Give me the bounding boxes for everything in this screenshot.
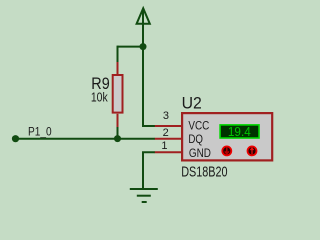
resistor R9 body — [113, 75, 123, 113]
wire top horizontal — [118, 46, 144, 48]
ground — [130, 189, 158, 202]
svg-text:10k: 10k — [91, 90, 108, 105]
DS18B20 U2 body — [182, 113, 272, 160]
svg-text:VCC: VCC — [188, 119, 209, 133]
pin 1 stub — [155, 151, 182, 153]
wire GND elbow down to ground — [143, 152, 155, 188]
svg-text:2: 2 — [163, 127, 169, 139]
wire resistor top vertical — [117, 46, 119, 63]
power symbol VCC arrow — [137, 8, 150, 23]
svg-text:DS18B20: DS18B20 — [181, 164, 227, 180]
junction dot on power line — [140, 43, 147, 50]
temperature display of U2 — [220, 125, 259, 138]
svg-text:1: 1 — [161, 140, 167, 152]
button increment (up arrow) — [248, 146, 257, 155]
junction dot P1_0 terminal — [12, 135, 19, 142]
wire VCC elbow — [143, 125, 155, 126]
svg-text:P1_0: P1_0 — [28, 124, 52, 138]
svg-text:19.4: 19.4 — [228, 124, 251, 139]
svg-text:U2: U2 — [182, 94, 202, 113]
button decrement (down arrow) — [222, 146, 231, 155]
wire resistor bottom vertical — [117, 127, 119, 139]
wire power vertical — [142, 10, 144, 127]
resistor R9 top pin stub — [117, 62, 119, 75]
pin 3 stub — [155, 125, 182, 127]
svg-text:DQ: DQ — [188, 132, 203, 146]
junction dot resistor joins DQ wire — [114, 135, 121, 142]
svg-text:GND: GND — [189, 146, 211, 160]
pin 2 stub — [155, 138, 182, 140]
resistor R9 bottom pin stub — [117, 114, 119, 127]
svg-text:3: 3 — [163, 110, 169, 122]
wire P1_0 horizontal to DQ — [16, 138, 156, 140]
